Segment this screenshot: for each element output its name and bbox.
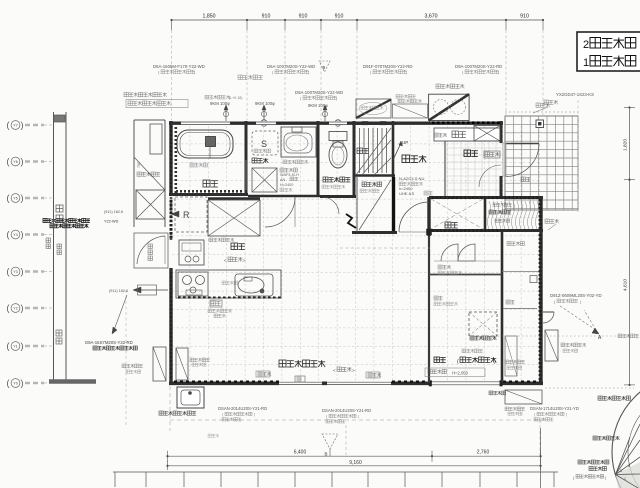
svg-text:S: S bbox=[261, 139, 267, 149]
svg-text:DSAN-2014U20S-Y21-RD: DSAN-2014U20S-Y21-RD bbox=[218, 406, 267, 411]
svg-text:(: ( bbox=[7, 267, 10, 277]
svg-text:(911) 182.6: (911) 182.6 bbox=[109, 289, 128, 293]
svg-text:(: ( bbox=[7, 120, 10, 130]
svg-text:): ) bbox=[21, 193, 24, 203]
svg-text:): ) bbox=[21, 157, 24, 167]
svg-text:): ) bbox=[254, 413, 255, 417]
svg-text:Y2: Y2 bbox=[13, 307, 17, 311]
svg-text:φ: φ bbox=[227, 101, 230, 106]
svg-text:910: 910 bbox=[299, 14, 308, 20]
svg-text:Y22-WD: Y22-WD bbox=[104, 220, 119, 224]
svg-text:B: B bbox=[323, 65, 326, 70]
svg-text:>: > bbox=[243, 258, 246, 263]
svg-text:φ: φ bbox=[272, 101, 275, 106]
svg-text:H=2,050: H=2,050 bbox=[452, 371, 469, 376]
svg-text:D9A-1007M20S-Y22-RD: D9A-1007M20S-Y22-RD bbox=[455, 64, 502, 69]
svg-text:Y6: Y6 bbox=[13, 160, 17, 164]
svg-text:): ) bbox=[21, 341, 24, 351]
svg-text:1: 1 bbox=[583, 57, 589, 69]
svg-text:<: < bbox=[224, 258, 227, 263]
svg-text:Y4: Y4 bbox=[13, 233, 17, 237]
svg-text:2,760: 2,760 bbox=[477, 450, 490, 456]
svg-text:910: 910 bbox=[520, 14, 529, 20]
svg-text:9KM 100: 9KM 100 bbox=[308, 103, 326, 108]
svg-text:(: ( bbox=[7, 230, 10, 240]
svg-text:N-A2G3-S NU: N-A2G3-S NU bbox=[399, 176, 424, 181]
svg-text:WAF3-M-H: WAF3-M-H bbox=[280, 173, 299, 177]
svg-text:UHE-KS: UHE-KS bbox=[399, 191, 414, 196]
svg-text:): ) bbox=[21, 230, 24, 240]
svg-text:<: < bbox=[333, 368, 336, 373]
svg-text:(: ( bbox=[7, 193, 10, 203]
svg-text:2: 2 bbox=[583, 39, 589, 51]
svg-text:(911) 182.6: (911) 182.6 bbox=[104, 210, 123, 214]
svg-text:6,400: 6,400 bbox=[294, 450, 307, 456]
svg-text:3,670: 3,670 bbox=[425, 14, 438, 20]
svg-text:D91Z-0609ML20S-Y02-YD: D91Z-0609ML20S-Y02-YD bbox=[550, 293, 602, 298]
svg-text:(: ( bbox=[7, 303, 10, 313]
svg-text:Y5: Y5 bbox=[13, 197, 17, 201]
svg-text:): ) bbox=[358, 415, 359, 419]
svg-text:DSAN-2014U20S-Y21-RD: DSAN-2014U20S-Y21-RD bbox=[322, 408, 371, 413]
svg-text:(: ( bbox=[7, 341, 10, 351]
svg-text:2: 2 bbox=[628, 464, 630, 468]
svg-text:D9A-16S7M20S-Y22-RD: D9A-16S7M20S-Y22-RD bbox=[85, 340, 133, 345]
svg-text:D6A-1605M-F170-Y22-WD: D6A-1605M-F170-Y22-WD bbox=[153, 64, 205, 69]
svg-text:Y7: Y7 bbox=[13, 124, 17, 128]
svg-text:UP: UP bbox=[402, 140, 408, 145]
svg-text:Y1: Y1 bbox=[13, 345, 17, 349]
svg-text:DSAN-1714U20S-Y21-YD: DSAN-1714U20S-Y21-YD bbox=[530, 406, 579, 411]
svg-text:910: 910 bbox=[335, 14, 344, 20]
svg-text:3: 3 bbox=[620, 469, 622, 473]
svg-text:D9A-1007M20S-Y22-WD: D9A-1007M20S-Y22-WD bbox=[295, 90, 343, 95]
svg-text:): ) bbox=[21, 267, 24, 277]
svg-text:>: > bbox=[352, 368, 355, 373]
svg-text:9KM 100: 9KM 100 bbox=[210, 101, 228, 106]
svg-text:1: 1 bbox=[624, 477, 626, 481]
svg-text:9,160: 9,160 bbox=[349, 460, 362, 466]
svg-text:): ) bbox=[21, 378, 24, 388]
svg-text:1,850: 1,850 bbox=[203, 14, 216, 20]
svg-text:(L+0.18): (L+0.18) bbox=[229, 96, 243, 100]
svg-text:D91F-0707M20S-Y22-RD: D91F-0707M20S-Y22-RD bbox=[363, 64, 412, 69]
svg-text:D6A-1007M20S-Y22-WD: D6A-1007M20S-Y22-WD bbox=[267, 64, 315, 69]
svg-text:): ) bbox=[21, 303, 24, 313]
svg-text:R: R bbox=[183, 210, 190, 220]
svg-text:750: 750 bbox=[137, 162, 141, 168]
svg-text:): ) bbox=[21, 120, 24, 130]
svg-text:Y0: Y0 bbox=[13, 382, 17, 386]
svg-text:Y3: Y3 bbox=[13, 270, 17, 274]
svg-text:): ) bbox=[566, 413, 567, 417]
svg-text:4,610: 4,610 bbox=[623, 279, 629, 291]
svg-text:B: B bbox=[325, 452, 328, 457]
svg-text:H=2400: H=2400 bbox=[280, 183, 293, 187]
svg-text:YX2GD47-1S23-KS: YX2GD47-1S23-KS bbox=[556, 92, 594, 97]
svg-text:(: ( bbox=[7, 378, 10, 388]
svg-text:(: ( bbox=[7, 157, 10, 167]
svg-text:910: 910 bbox=[262, 14, 271, 20]
svg-text:AN: AN bbox=[280, 178, 286, 182]
svg-text:1,820: 1,820 bbox=[623, 139, 629, 151]
